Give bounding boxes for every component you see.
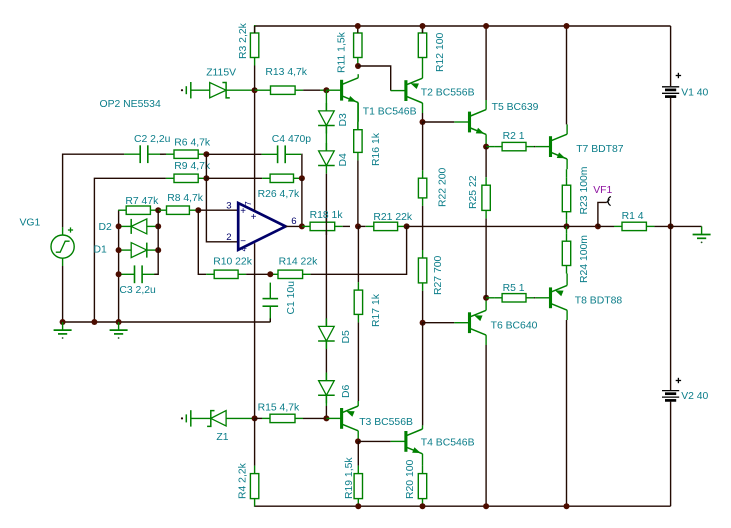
resistor R5 [486, 297, 494, 299]
ground symbol left 2 [118, 322, 120, 330]
svg-text:VF1: VF1 [593, 185, 612, 196]
ground symbol right [701, 226, 703, 234]
battery V2 40 [670, 226, 672, 390]
junction T5 collector rail [483, 23, 489, 29]
wire output row right [486, 225, 566, 227]
wire R21 right lead [406, 225, 407, 227]
junction T3 base / D6 bottom [323, 415, 329, 421]
svg-text:R20 100: R20 100 [405, 459, 416, 499]
wire pin4 supply [254, 243, 256, 418]
junction R20 bottom rail [420, 503, 426, 509]
probe VF1 [598, 202, 607, 226]
junction R11 top rail [355, 23, 361, 29]
wire R22 to R27 (crosses output row) [422, 206, 424, 250]
resistor R4 [254, 466, 256, 474]
wire clamp left column [118, 210, 120, 322]
svg-text:R5 1: R5 1 [503, 283, 525, 294]
wire R3 bottom to V+ node [254, 66, 256, 91]
svg-text:R16 1k: R16 1k [371, 132, 382, 166]
junction V+ node [252, 87, 258, 93]
resistor R24 [566, 233, 568, 241]
wire bottom -40V rail [255, 505, 671, 507]
wire R5 to T8 base [534, 297, 535, 299]
terminal jumper J2 [181, 417, 183, 419]
junction R7/R8 [155, 207, 161, 213]
svg-text:C4 470p: C4 470p [272, 134, 312, 145]
junction T8 collector bottom rail [564, 503, 570, 509]
wire R18 to R16 node [343, 225, 350, 227]
svg-text:R13 4,7k: R13 4,7k [265, 67, 307, 78]
wire top +40V rail [255, 25, 671, 27]
wire R16 to output row [357, 160, 359, 226]
svg-text:OP2 NE5534: OP2 NE5534 [100, 99, 161, 110]
junction T7 collector rail [564, 23, 570, 29]
svg-text:−: − [240, 236, 246, 247]
svg-text:T4 BC546B: T4 BC546B [421, 438, 475, 449]
svg-text:D6: D6 [341, 384, 352, 398]
wire R20 to bottom rail [422, 505, 424, 507]
resistor R26 [262, 177, 270, 179]
wire C2 to R6 [160, 153, 166, 155]
junction node R6/C4 [203, 151, 209, 157]
wire node to C4 [206, 153, 261, 155]
capacitor C4 [262, 153, 278, 155]
junction VG1 ground [60, 319, 66, 325]
wire R9 left leg to ground rail [94, 178, 165, 322]
wire D5 to D6 [325, 341, 327, 349]
svg-text:V1 40: V1 40 [681, 88, 708, 99]
svg-text:T6 BC640: T6 BC640 [491, 321, 538, 332]
wire bias chain crossing over R18 [325, 218, 327, 235]
wire Z1 to V- node [252, 417, 255, 419]
resistor R9 [166, 177, 174, 179]
wire R12 top [422, 26, 424, 33]
wire T2 collector node to R22 [422, 122, 424, 170]
resistor R23 [566, 177, 568, 185]
resistor R25 [485, 147, 487, 178]
svg-text:R22 200: R22 200 [438, 167, 449, 207]
wire D3 top lead to base node [325, 90, 327, 111]
wire output row to R24 [566, 226, 568, 233]
wire C3 right up to D1 node [154, 250, 158, 274]
wire R15 to T3 base node [303, 417, 326, 419]
wire C1 bottom to ground rail [269, 318, 271, 322]
wire R13 to T1 base [303, 89, 320, 91]
wire R23 to output row [566, 220, 568, 227]
junction R16 output row [355, 223, 361, 229]
junction output / R26 / R18 [299, 223, 305, 229]
svg-text:D5: D5 [341, 330, 352, 344]
wire R25 node down to T6 emitter node [485, 226, 487, 297]
junction T3 collector / T4 base / R19 [355, 438, 361, 444]
svg-text:R19 1,5k: R19 1,5k [344, 457, 355, 499]
svg-text:T7 BDT87: T7 BDT87 [576, 144, 624, 155]
zener Z115V [191, 89, 210, 91]
capacitor C1 [269, 283, 271, 299]
wire R10 to C1 node [246, 273, 270, 275]
diode D1 [119, 249, 132, 251]
wire V- node to R15 [255, 417, 262, 419]
svg-text:R25 22: R25 22 [468, 175, 479, 209]
junction clamp column ground [116, 319, 122, 325]
resistor R13 [255, 89, 263, 91]
junction T2 collector / T5 base [420, 119, 426, 125]
svg-text:D3: D3 [338, 113, 349, 127]
junction R21 right / feedback [404, 223, 410, 229]
junction R8 right pin3 node [195, 207, 201, 213]
zener Z1 [191, 417, 211, 419]
svg-text:R12 100: R12 100 [435, 32, 446, 72]
wire C4 right down to R26 node [300, 154, 303, 178]
resistor R8 [159, 209, 167, 211]
junction T6 collector bottom rail [483, 503, 489, 509]
junction R27 / T6 base / T4 collector [420, 320, 426, 326]
junction C3 left [116, 271, 122, 277]
battery V1 40 [670, 26, 672, 86]
resistor R21 [366, 225, 374, 227]
junction D2 left [116, 223, 122, 229]
junction R10/R14/C1 [267, 271, 273, 277]
junction T1 base / D3 top [323, 87, 329, 93]
wire R7 corner [118, 209, 120, 211]
svg-text:D4: D4 [338, 153, 349, 167]
capacitor C2 [124, 153, 140, 155]
svg-text:R11 1,5k: R11 1,5k [337, 31, 348, 73]
resistor R17 [357, 282, 359, 290]
wire R6 node to R9 node [205, 154, 207, 178]
wire R26 node down to output node [301, 178, 303, 226]
resistor R15 [262, 417, 270, 419]
svg-text:3: 3 [226, 200, 231, 211]
diode D4 [325, 143, 327, 151]
wire T7 emitter to R23 [566, 169, 568, 177]
junction node R9/R26/pin2 [203, 175, 209, 181]
resistor R2 [486, 146, 494, 148]
junction R12 top rail [420, 23, 426, 29]
wire T8 collector to bottom rail [566, 320, 568, 506]
transistor T2 BC556B [391, 90, 406, 92]
wire pin3 node down to R10 [198, 210, 206, 274]
wire output row middle [407, 225, 487, 227]
svg-text:R8 4,7k: R8 4,7k [167, 193, 204, 204]
junction supply midpoint [668, 223, 674, 229]
wire T7 collector to rail [566, 26, 568, 124]
diode D3 [325, 103, 327, 111]
wire T5 base [423, 121, 455, 123]
svg-text:R15 4,7k: R15 4,7k [258, 403, 300, 414]
wire T4 base node to R19 [357, 441, 359, 465]
svg-text:R4 2,2k: R4 2,2k [238, 462, 249, 499]
svg-text:R9 4,7k: R9 4,7k [174, 161, 211, 172]
svg-text:V2 40: V2 40 [681, 391, 708, 402]
svg-text:R21 22k: R21 22k [373, 212, 413, 223]
wire pin2 node to op-amp [206, 178, 237, 242]
capacitor C3 [119, 273, 135, 275]
wire T3 collector to T4 base [358, 440, 391, 442]
svg-text:R27 700: R27 700 [433, 255, 444, 295]
resistor R12 [422, 25, 424, 33]
wire D6 to Z1 node [325, 395, 327, 406]
junction R26 right [299, 175, 305, 181]
svg-text:C1 10u: C1 10u [286, 281, 297, 315]
transistor T5 BC639 [454, 121, 469, 123]
wire R3 top corner [254, 26, 256, 33]
svg-text:R23 100m: R23 100m [579, 167, 590, 215]
resistor R16 [357, 122, 359, 130]
label VG1 plus [68, 229, 73, 231]
svg-text:T5 BC639: T5 BC639 [492, 102, 539, 113]
svg-text:R7 47k: R7 47k [125, 196, 159, 207]
transistor T6 BC640 [454, 322, 469, 324]
resistor R1 [614, 225, 622, 227]
wire VG1 top to C2 row [63, 154, 125, 227]
wire VG1 bottom to ground rail [62, 266, 64, 322]
wire R14 to feedback jog [311, 226, 407, 274]
svg-text:T1 BC546B: T1 BC546B [363, 107, 417, 118]
wire pin3 to op-amp [198, 209, 237, 211]
transistor T1 BC546B [326, 89, 341, 91]
svg-text:R10 22k: R10 22k [213, 256, 253, 267]
wire midpoint to right ground [671, 225, 702, 227]
wire R17 to T3 emitter [357, 322, 359, 401]
junction R11 bottom / T1 collector [355, 63, 361, 69]
wire T6 base [423, 322, 455, 324]
resistor R11 [357, 25, 359, 33]
junction R23 output row [564, 223, 570, 229]
wire T1 emitter to R16 [357, 103, 359, 130]
svg-text:C2 2,2u: C2 2,2u [134, 134, 171, 145]
wire R2 to T7 base [534, 146, 535, 148]
svg-text:VG1: VG1 [20, 218, 41, 229]
svg-text:D2: D2 [99, 222, 113, 233]
transistor T8 BDT88 [535, 297, 550, 299]
transistor T7 BDT87 [535, 146, 550, 148]
wire V- node to R4 [254, 418, 256, 465]
wire T5 collector to rail [485, 26, 487, 100]
wire VF1 to R1 [598, 225, 614, 227]
svg-text:T2 BC556B: T2 BC556B [421, 88, 475, 99]
svg-text:Z1: Z1 [216, 432, 228, 443]
transistor T4 BC546B [391, 440, 406, 442]
wire output row to VF1 [567, 225, 598, 227]
wire D3 to D4 [325, 126, 327, 151]
svg-text:Z115V: Z115V [206, 67, 236, 78]
wire R1 to supply midpoint [654, 225, 670, 227]
svg-text:6: 6 [291, 216, 296, 227]
wire R27 to T6 base node [422, 291, 424, 323]
svg-text:2: 2 [226, 232, 231, 243]
resistor R22 [422, 170, 424, 178]
wire clamp right column [157, 210, 159, 250]
resistor R14 [270, 273, 278, 275]
resistor R18 [302, 225, 310, 227]
junction VF1 tap [595, 223, 601, 229]
wire R19 to bottom rail [357, 505, 359, 507]
diode D2 [119, 225, 132, 227]
svg-text:T3 BC556B: T3 BC556B [359, 417, 413, 428]
junction T6 emitter / R5 [483, 295, 489, 301]
resistor R10 [206, 273, 214, 275]
svg-text:R6 4,7k: R6 4,7k [174, 138, 211, 149]
wire node down to T4 collector [422, 323, 424, 426]
resistor R27 [422, 250, 424, 258]
junction T5 emitter / R2 / R25 [483, 144, 489, 150]
terminal jumper J1 [181, 89, 183, 91]
svg-text:4: 4 [240, 246, 249, 251]
diode D6 [325, 373, 327, 381]
wire ground rail left [63, 321, 271, 323]
wire output row to R17 [357, 226, 359, 282]
svg-text:R17 1k: R17 1k [371, 293, 382, 327]
junction D1 right [155, 247, 161, 253]
junction R9 ground [91, 319, 97, 325]
wire pin7 supply [254, 90, 256, 210]
op-amp OP2 NE5534 [238, 203, 285, 250]
resistor R7 [118, 209, 126, 211]
ground symbol left 1 [62, 322, 64, 330]
resistor R20 [422, 466, 424, 474]
junction D1 left [116, 247, 122, 253]
junction D2 right [155, 223, 161, 229]
svg-text:R14 22k: R14 22k [279, 256, 319, 267]
svg-text:7: 7 [244, 201, 253, 205]
svg-text:R1 4: R1 4 [622, 211, 644, 222]
transistor T3 BC556B [326, 417, 341, 419]
svg-text:R3 2,2k: R3 2,2k [238, 22, 249, 59]
svg-text:R2 1: R2 1 [503, 131, 525, 142]
svg-text:C3 2,2u: C3 2,2u [119, 285, 156, 296]
wire D4 down to D5 (crosses rows) [325, 174, 327, 326]
wire R11 top [357, 26, 359, 33]
wire R16 node to R21 [358, 225, 366, 227]
junction V- node [252, 415, 258, 421]
wire T1 collector to T2 base jog [358, 66, 391, 91]
wire node to R26 [206, 177, 262, 179]
svg-text:T8 BDT88: T8 BDT88 [575, 295, 623, 306]
svg-text:R24 100m: R24 100m [579, 235, 590, 283]
wire op-amp output [286, 225, 302, 227]
generator VG1 [51, 235, 74, 258]
wire T6 collector to bottom rail [485, 345, 487, 506]
svg-text:R26 4,7k: R26 4,7k [258, 189, 300, 200]
junction R19 bottom rail [355, 503, 361, 509]
wire R4 to bottom rail [254, 505, 256, 507]
diode D5 [325, 318, 327, 326]
resistor R3 [254, 25, 256, 33]
resistor R19 [357, 466, 359, 474]
resistor R6 [166, 153, 174, 155]
svg-text:+: + [251, 212, 257, 223]
wire T2 collector down [422, 113, 424, 122]
svg-text:+: + [240, 206, 246, 217]
svg-text:D1: D1 [94, 245, 108, 256]
